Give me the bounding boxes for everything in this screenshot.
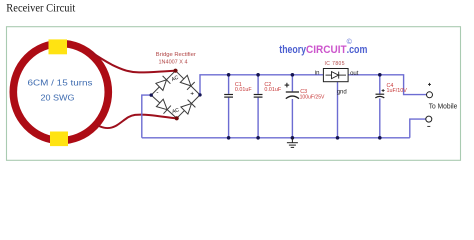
regulator internal diode symbol (326, 72, 347, 79)
wire: bottom rail (142, 137, 410, 139)
svg-text:IC 7805: IC 7805 (325, 61, 345, 67)
node AC bottom (red junction) (175, 116, 179, 120)
svg-text:0.01uF: 0.01uF (264, 87, 281, 93)
wire: C1 leads (228, 75, 230, 94)
svg-text:0.01uF: 0.01uF (235, 87, 252, 93)
coil top tape (yellow) (49, 39, 68, 54)
capacitor C1 plates (224, 95, 233, 98)
svg-text:.com: .com (347, 44, 368, 56)
svg-text:1N4007 X 4: 1N4007 X 4 (159, 60, 189, 66)
node AC top (red junction) (173, 69, 177, 73)
svg-text:20 SWG: 20 SWG (41, 94, 75, 103)
svg-text:6CM / 15 turns: 6CM / 15 turns (28, 79, 93, 88)
coil bottom tape (yellow) (50, 132, 68, 147)
wire: top rail after regulator (348, 75, 426, 95)
node plus vertex (198, 93, 201, 96)
wire: C3 leads (291, 75, 293, 92)
D2 triangle+bar (180, 75, 194, 90)
coil L1 ring (13, 44, 108, 141)
svg-text:out: out (350, 71, 359, 77)
wire coil to bridge AC top (red) (90, 51, 176, 72)
svg-text:theory: theory (279, 44, 306, 56)
regulator U1 7805 box (323, 69, 348, 82)
svg-text:gnd: gnd (337, 90, 347, 96)
ground (287, 138, 298, 148)
svg-text:Receiver Circuit: Receiver Circuit (6, 1, 76, 15)
terminal plus label (428, 83, 431, 86)
capacitor C3 (electrolytic) plates (286, 92, 299, 99)
svg-text:To Mobile: To Mobile (429, 104, 458, 111)
frame border (7, 27, 461, 161)
C3 polarity plus (285, 83, 290, 88)
wire: C2 leads (257, 75, 259, 94)
terminal minus label (427, 125, 430, 127)
junction dots top rail (227, 73, 231, 77)
svg-text:CIRCUIT: CIRCUIT (306, 44, 347, 56)
bridge rectifier BR1 (1N4007 x4) (151, 71, 200, 119)
diode D1 (left vertex to top AC) (151, 71, 175, 95)
svg-text:in: in (315, 71, 320, 77)
wire: bridge minus to bottom rail (142, 95, 151, 138)
wire: C4 leads (379, 75, 381, 94)
svg-text:Bridge Rectifier: Bridge Rectifier (156, 52, 196, 58)
diode D4 (bottom AC to right vertex) (177, 95, 200, 118)
wires (blue net) (142, 75, 427, 138)
diode D3 (left vertex to bottom AC) (151, 95, 177, 118)
terminal + (to mobile) (427, 92, 433, 98)
svg-text:1uF/10V: 1uF/10V (387, 88, 408, 94)
D4 triangle+bar (181, 100, 196, 115)
svg-text:©: © (347, 38, 353, 46)
wire: bridge plus up to top rail (200, 75, 323, 95)
node minus vertex (150, 93, 153, 96)
svg-text:100uF/25V: 100uF/25V (300, 94, 325, 100)
D1 triangle+bar (156, 76, 171, 91)
svg-text:-: - (156, 89, 158, 96)
C4 polarity plus (382, 89, 385, 92)
wire coil to bridge AC bottom (red) (97, 114, 177, 128)
D3 triangle+bar (156, 99, 171, 114)
capacitor C4 (electrolytic) plates (375, 94, 384, 98)
terminal - (to mobile) (426, 116, 432, 122)
svg-text:+: + (190, 90, 194, 97)
watermark theoryCIRCUIT.com (279, 44, 367, 56)
wire: regulator gnd lead (337, 82, 339, 138)
wire: bottom terminal branch (410, 119, 426, 138)
diode D2 (top AC to right vertex) (176, 71, 201, 95)
capacitor C2 plates (254, 95, 263, 98)
junction dots bottom rail (227, 136, 231, 140)
